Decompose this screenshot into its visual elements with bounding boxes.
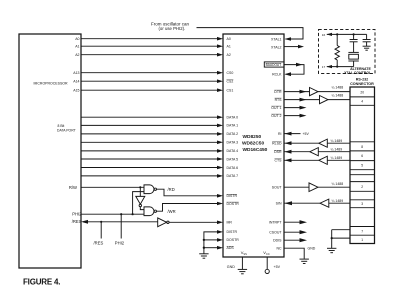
svg-text:ADS: ADS: [227, 246, 235, 250]
svg-text:RLSD: RLSD: [272, 142, 282, 146]
node PHI2 stub: [120, 213, 122, 215]
svg-text:DOSTR: DOSTR: [227, 238, 240, 242]
svg-text:/RES: /RES: [72, 219, 82, 224]
wire NC to ground: [284, 248, 304, 259]
wire RTS to pin4: [328, 99, 350, 101]
wire INTRPT: [284, 220, 307, 224]
buffer 1489 SIN: [320, 199, 329, 207]
buffer 1488 SOUT: [309, 183, 318, 192]
connector divider 6: [350, 169, 375, 171]
wire pin1 to ground rail: [332, 237, 350, 239]
svg-text:XTAL CONTROL: XTAL CONTROL: [344, 71, 372, 75]
wire PHI2 to NAND1 input: [133, 192, 144, 215]
ground (Vss): [238, 269, 247, 273]
wire DTR to pin20: [318, 91, 350, 93]
svg-text:CS2: CS2: [227, 80, 234, 84]
wire BAUDOUT loop to RCLK: [284, 63, 304, 76]
node resistor top: [336, 33, 338, 35]
svg-text:DTR: DTR: [274, 90, 282, 94]
svg-text:3: 3: [361, 202, 363, 206]
connector divider 2: [350, 104, 375, 106]
svg-text:5: 5: [361, 164, 363, 168]
wire pin8 to RLSD buffer: [327, 142, 350, 144]
nand gate G2 (/WR): [144, 207, 156, 216]
svg-text:BAUDOUT: BAUDOUT: [266, 63, 282, 67]
svg-text:4: 4: [361, 100, 363, 104]
svg-text:¼ 1488: ¼ 1488: [332, 94, 344, 98]
svg-text:17: 17: [322, 65, 326, 69]
connector divider 10: [350, 199, 375, 201]
microprocessor box: [19, 34, 81, 268]
wire SOUT: [284, 186, 309, 188]
svg-text:6: 6: [361, 154, 363, 158]
wire DATA4: [81, 149, 223, 153]
resistor RX: [335, 34, 339, 66]
svg-text:A2: A2: [227, 53, 231, 57]
svg-text:DATA 6: DATA 6: [227, 166, 239, 170]
wire xtal top rail: [327, 33, 367, 36]
svg-text:CS1: CS1: [227, 89, 234, 93]
svg-text:RI: RI: [278, 132, 282, 136]
capacitor C1: [350, 34, 358, 52]
node resistor bottom: [336, 66, 338, 68]
svg-text:RCLK: RCLK: [272, 72, 282, 76]
wire A14 to CS2: [81, 79, 223, 83]
svg-text:¼ 1489: ¼ 1489: [332, 199, 344, 203]
svg-text:A0: A0: [227, 37, 231, 41]
connector divider 1: [350, 96, 375, 98]
wire DATA7: [81, 174, 223, 178]
svg-text:/WR: /WR: [168, 209, 176, 214]
wire pin3 to SIN buffer: [329, 202, 350, 204]
connector divider 7: [350, 174, 375, 176]
svg-text:PHI2: PHI2: [115, 241, 125, 246]
svg-text:A2: A2: [75, 53, 79, 57]
svg-text:DISTR: DISTR: [227, 230, 238, 234]
svg-text:/RES: /RES: [94, 241, 104, 246]
wire A13 to CS0: [81, 71, 223, 75]
connector divider 13: [350, 234, 375, 236]
wire DTR: [284, 90, 310, 94]
capacitor C2: [363, 34, 371, 46]
svg-text:20: 20: [360, 91, 364, 95]
svg-text:2: 2: [361, 185, 363, 189]
wire OUT1: [284, 106, 307, 110]
wire XTAL2 out: [284, 45, 304, 49]
connector divider 8: [350, 181, 375, 183]
svg-text:OUT 2: OUT 2: [271, 114, 281, 118]
svg-text:GND: GND: [308, 246, 316, 250]
wire /RES: [81, 220, 158, 224]
wire R/W: [81, 186, 144, 188]
wire /WR to DOSTR: [157, 202, 224, 212]
svg-text:DATA 7: DATA 7: [227, 174, 239, 178]
svg-text:16: 16: [322, 33, 326, 37]
svg-text:CSOUT: CSOUT: [269, 231, 282, 235]
ground (NC): [300, 259, 309, 263]
svg-text:¼ 1488: ¼ 1488: [332, 86, 344, 90]
svg-text:A14: A14: [73, 79, 79, 83]
svg-text:OUT 1: OUT 1: [271, 106, 281, 110]
wire MR: [169, 221, 223, 225]
svg-text:+5V: +5V: [274, 265, 281, 269]
ground (C2): [363, 46, 371, 50]
svg-text:¼ 1489: ¼ 1489: [331, 147, 343, 151]
wire A1: [81, 44, 223, 48]
svg-text:PHI2: PHI2: [72, 212, 82, 217]
wire SIN: [284, 201, 320, 205]
wire A2: [81, 53, 223, 57]
buffer 1489 RLSD: [319, 139, 328, 147]
svg-text:DATA PORT: DATA PORT: [57, 128, 76, 132]
svg-text:DDIS: DDIS: [273, 239, 282, 243]
svg-text:(or use PHI2).: (or use PHI2).: [159, 26, 186, 31]
svg-text:WD82C50: WD82C50: [242, 140, 264, 146]
wire A15 to CS1: [81, 88, 223, 92]
wire DATA6: [81, 166, 223, 170]
wire tie to ground: [203, 248, 205, 254]
wire inverter output to NAND2: [140, 207, 144, 210]
svg-text:DATA 0: DATA 0: [227, 116, 239, 120]
wire SOUT to pin2: [318, 186, 350, 188]
svg-text:FIGURE 4.: FIGURE 4.: [23, 278, 60, 287]
inverter U2B (reset to MR): [158, 218, 169, 227]
svg-text:WD8250: WD8250: [243, 134, 262, 140]
svg-text:+5V: +5V: [303, 132, 310, 136]
svg-text:R/W: R/W: [69, 185, 77, 190]
node ADS tie: [203, 247, 205, 249]
svg-text:CONNECTOR: CONNECTOR: [350, 82, 374, 86]
connector divider 5: [350, 160, 375, 162]
svg-text:DATA 3: DATA 3: [227, 141, 239, 145]
svg-text:DATA 5: DATA 5: [227, 157, 239, 161]
svg-text:¼ 1488: ¼ 1488: [332, 182, 344, 186]
ground (connector shield): [327, 248, 336, 252]
wire DDIS: [284, 238, 307, 242]
node cap1 top: [353, 33, 355, 35]
wire Vcc to +5V: [266, 257, 268, 269]
svg-text:RTS: RTS: [275, 98, 283, 102]
connector divider 9: [350, 190, 375, 192]
wire PHI2 stub: [120, 214, 122, 238]
node DOSTR tie: [203, 239, 205, 241]
node /RES stub: [100, 221, 102, 223]
svg-text:INTRPT: INTRPT: [269, 221, 283, 225]
wire /RD to DISTR: [157, 189, 224, 197]
inverter U2A (R/W): [136, 196, 145, 206]
svg-text:DATA 2: DATA 2: [227, 132, 239, 136]
svg-text:¼ 1489: ¼ 1489: [331, 139, 343, 143]
connector J1 box: [350, 87, 375, 244]
svg-text:CTS: CTS: [275, 159, 283, 163]
svg-text:NC: NC: [276, 247, 282, 251]
buffer 1488 DTR: [310, 88, 319, 96]
svg-text:DISTR: DISTR: [227, 194, 238, 198]
svg-text:8: 8: [361, 145, 363, 149]
ground (DISTR/DOSTR/ADS tie): [199, 254, 208, 258]
dashed box alternate xtal control: [319, 30, 376, 74]
wire oscillator to XTAL1: [197, 28, 304, 41]
svg-text:MR: MR: [227, 221, 233, 225]
wire CSOUT: [284, 230, 307, 234]
connector divider 4: [350, 150, 375, 152]
svg-text:A1: A1: [227, 45, 231, 49]
svg-text:SIN: SIN: [276, 202, 282, 206]
svg-text:XTAL2: XTAL2: [271, 45, 281, 49]
svg-text:A15: A15: [73, 88, 79, 92]
svg-text:DOSTR: DOSTR: [227, 202, 240, 206]
wire DSR: [284, 150, 310, 154]
connector divider 3: [350, 141, 375, 143]
node PHI2 to NAND1: [132, 213, 134, 215]
wire RI to +5V: [284, 132, 301, 136]
wire OUT2: [284, 114, 307, 118]
svg-text:CS0: CS0: [227, 71, 234, 75]
svg-text:VSS: VSS: [241, 250, 247, 256]
svg-text:SOUT: SOUT: [272, 186, 283, 190]
wire pin7 to ground rail: [332, 229, 350, 231]
svg-text:VCC: VCC: [263, 250, 270, 256]
wire RTS: [284, 98, 320, 102]
wire PHI2: [81, 213, 144, 215]
svg-text:/RD: /RD: [168, 187, 175, 192]
buffer 1488 RTS: [320, 96, 329, 104]
wire DATA2: [81, 132, 223, 136]
wire CTS: [284, 158, 319, 162]
svg-text:A1: A1: [75, 44, 79, 48]
svg-text:XTAL1: XTAL1: [271, 37, 281, 41]
wire A0: [81, 37, 223, 41]
terminal +5V circle: [265, 269, 269, 273]
wire R/W to inverter input: [139, 187, 141, 196]
node R/W to inverter: [139, 186, 141, 188]
svg-text:¼ 1489: ¼ 1489: [331, 156, 343, 160]
wire pin6 to DSR buffer: [318, 151, 350, 153]
svg-text:A13: A13: [73, 71, 79, 75]
wire DISTR tied: [204, 230, 223, 248]
wire ADS tied: [204, 246, 223, 250]
wire /RES stub: [100, 222, 102, 239]
chip pin label BAUDOUT boxed: [264, 62, 284, 67]
wire DATA3: [81, 141, 223, 145]
buffer 1489 CTS: [319, 156, 328, 164]
wire ground rail down: [331, 230, 333, 248]
wire Vss to ground: [241, 257, 243, 269]
svg-text:7: 7: [361, 229, 363, 233]
svg-text:DATA 4: DATA 4: [227, 149, 239, 153]
wire DATA5: [81, 157, 223, 161]
connector divider 11: [350, 207, 375, 209]
wire xtal bottom rail: [327, 65, 354, 68]
svg-text:DATA 1: DATA 1: [227, 124, 239, 128]
wire DOSTR tied: [204, 238, 223, 242]
crystal Y1: [348, 52, 358, 66]
buffer 1489 DSR: [310, 148, 319, 156]
svg-text:MICROPROCESSOR: MICROPROCESSOR: [34, 82, 69, 86]
nand gate G1 (/RD): [144, 185, 156, 194]
UART chip U1 box: [223, 34, 284, 257]
svg-text:DSR: DSR: [274, 150, 282, 154]
wire RLSD: [284, 141, 319, 145]
wire pin5 to CTS buffer: [327, 159, 350, 161]
svg-text:A0: A0: [75, 37, 79, 41]
wire DATA0: [81, 115, 223, 119]
svg-text:1: 1: [361, 238, 363, 242]
svg-text:WD16C450: WD16C450: [243, 147, 268, 153]
svg-text:GND: GND: [227, 265, 235, 269]
wire DATA1: [81, 124, 223, 128]
connector divider 12: [350, 226, 375, 228]
node ground rail: [331, 237, 333, 239]
